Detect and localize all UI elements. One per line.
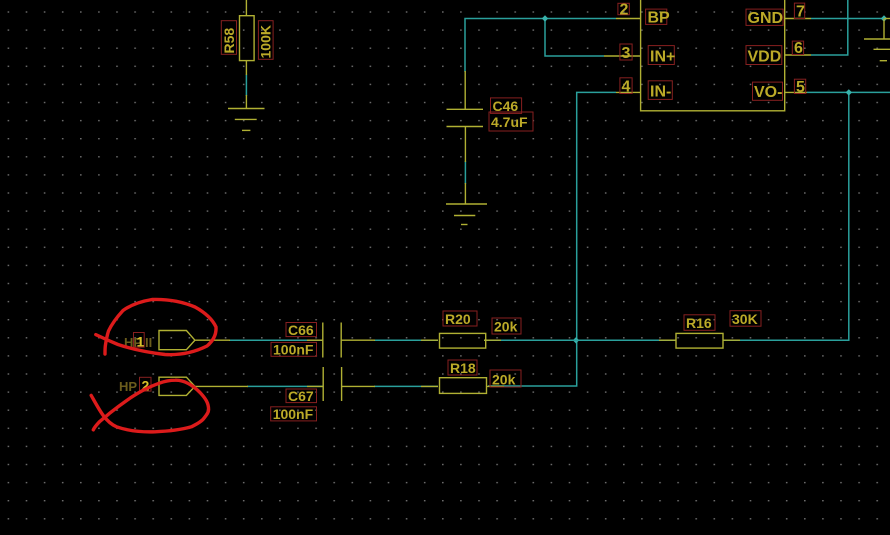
HP1 text xyxy=(124,333,152,351)
svg-text:20k: 20k xyxy=(492,372,516,388)
junction node GND xyxy=(881,15,887,21)
pin number 2 xyxy=(618,2,629,19)
connector HP1 xyxy=(159,331,230,350)
wire net BP top xyxy=(465,19,616,73)
pin number 6 xyxy=(792,40,803,57)
connector HP2 xyxy=(159,377,248,395)
wire net IN- xyxy=(488,92,616,386)
junction node IN- / R20-R16 xyxy=(573,337,579,343)
red annotation circle 2 xyxy=(91,380,208,432)
svg-text:3: 3 xyxy=(622,45,631,62)
pin label IN+ xyxy=(648,46,675,66)
svg-text:C66: C66 xyxy=(288,322,314,338)
svg-text:1: 1 xyxy=(137,334,145,350)
svg-text:R16: R16 xyxy=(686,315,712,331)
svg-text:30K: 30K xyxy=(732,311,758,327)
pin label IN- xyxy=(648,81,672,101)
svg-text:R20: R20 xyxy=(445,311,471,327)
resistor R58 xyxy=(240,0,255,109)
svg-text:100nF: 100nF xyxy=(273,406,314,422)
svg-text:IN+: IN+ xyxy=(650,49,675,66)
R20 label xyxy=(443,311,477,327)
red annotation circle 1 xyxy=(96,299,216,354)
resistor R18 pin stubs xyxy=(421,385,504,387)
resistor R20 xyxy=(440,333,486,348)
wire R16 to VO- xyxy=(723,92,849,340)
4.7uF label xyxy=(489,112,533,131)
svg-text:C67: C67 xyxy=(288,388,314,404)
svg-text:2: 2 xyxy=(620,2,629,19)
20k label R20 xyxy=(492,318,521,335)
wire C46 mid xyxy=(464,161,466,184)
pin 6 stub xyxy=(785,54,811,56)
ground top right xyxy=(864,19,890,61)
op-amp U1 box xyxy=(641,0,785,111)
wire C67 to R18 row xyxy=(247,385,438,387)
svg-text:R18: R18 xyxy=(450,360,476,376)
wire R58 mid xyxy=(245,75,247,97)
resistor R20 pin stubs xyxy=(421,339,501,341)
pin number 4 xyxy=(620,78,632,96)
svg-text:5: 5 xyxy=(796,79,805,96)
pin number 7 xyxy=(794,3,805,20)
pin number 5 xyxy=(794,79,805,96)
svg-text:R58: R58 xyxy=(221,28,237,54)
ground under R58 xyxy=(228,109,265,131)
wire GND right xyxy=(811,18,884,20)
R18 label xyxy=(448,360,477,376)
pin label BP xyxy=(646,9,670,26)
R58 label xyxy=(221,21,237,55)
pin 7 stub xyxy=(785,18,811,20)
junction node VO- xyxy=(846,89,852,95)
svg-text:VDD: VDD xyxy=(748,49,782,66)
capacitor C66 xyxy=(307,323,375,358)
100nF label C67 xyxy=(271,406,317,422)
20k label R18 xyxy=(490,370,521,388)
30K label xyxy=(730,311,761,327)
wire VDD up xyxy=(811,0,848,55)
ground under C46 xyxy=(446,204,487,225)
pin 3 stub xyxy=(604,55,641,57)
svg-text:100K: 100K xyxy=(258,25,274,58)
svg-text:IN-: IN- xyxy=(650,84,671,101)
capacitor C46 xyxy=(447,71,484,204)
pin 4 stub xyxy=(616,91,641,93)
pin 2 stub xyxy=(616,18,641,20)
svg-text:HP: HP xyxy=(119,379,137,394)
100K label xyxy=(258,21,274,60)
capacitor C67 xyxy=(307,367,375,401)
HP2 text xyxy=(119,377,151,394)
R16 label xyxy=(684,315,715,331)
svg-text:20k: 20k xyxy=(494,319,518,335)
wire VO- right xyxy=(807,91,890,93)
svg-text:7: 7 xyxy=(796,4,805,21)
pin label VO- xyxy=(753,82,783,101)
resistor R16 xyxy=(676,333,723,348)
100nF label C66 xyxy=(271,342,317,358)
svg-text:II: II xyxy=(145,335,152,350)
svg-text:BP: BP xyxy=(648,10,671,27)
svg-text:VO-: VO- xyxy=(754,84,782,101)
svg-text:4.7uF: 4.7uF xyxy=(491,114,528,130)
C46 label xyxy=(491,98,522,114)
resistor R16 pin stubs xyxy=(659,339,740,341)
pin number 3 xyxy=(620,44,632,62)
wire C66 to R20 row xyxy=(229,339,676,341)
C66 label xyxy=(286,322,317,338)
pin 5 stub xyxy=(785,91,807,93)
svg-text:6: 6 xyxy=(794,40,803,57)
svg-text:4: 4 xyxy=(622,79,631,96)
pin label VDD xyxy=(746,46,782,66)
svg-text:GND: GND xyxy=(748,10,784,27)
junction node BP xyxy=(542,15,548,21)
svg-text:100nF: 100nF xyxy=(273,342,314,358)
resistor R18 xyxy=(440,378,487,394)
pin label GND xyxy=(746,9,783,27)
C67 label xyxy=(286,388,317,404)
